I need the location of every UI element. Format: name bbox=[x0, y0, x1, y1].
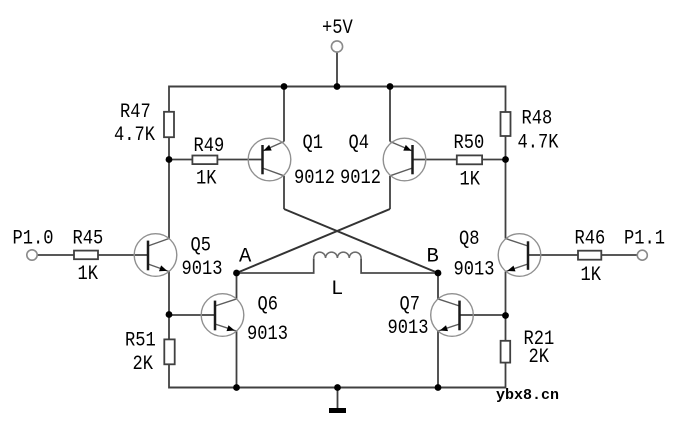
svg-text:Q8: Q8 bbox=[459, 228, 480, 251]
svg-text:R51: R51 bbox=[125, 330, 156, 353]
svg-text:R47: R47 bbox=[120, 101, 151, 124]
svg-text:P1.0: P1.0 bbox=[13, 228, 54, 251]
svg-text:Q4: Q4 bbox=[349, 132, 370, 155]
svg-text:4.7K: 4.7K bbox=[518, 132, 560, 155]
svg-text:Q6: Q6 bbox=[258, 294, 279, 317]
svg-text:Q5: Q5 bbox=[191, 235, 212, 258]
svg-text:9013: 9013 bbox=[388, 317, 429, 340]
svg-text:P1.1: P1.1 bbox=[624, 228, 665, 251]
svg-text:1K: 1K bbox=[78, 263, 99, 286]
svg-text:2K: 2K bbox=[529, 346, 550, 369]
svg-text:B: B bbox=[427, 246, 439, 269]
svg-text:Q1: Q1 bbox=[303, 132, 324, 155]
svg-text:+5V: +5V bbox=[322, 17, 353, 40]
svg-text:1K: 1K bbox=[581, 264, 602, 287]
svg-text:R45: R45 bbox=[73, 228, 104, 251]
svg-text:2K: 2K bbox=[133, 353, 154, 376]
svg-text:ybx8.cn: ybx8.cn bbox=[496, 387, 559, 404]
svg-text:9012: 9012 bbox=[340, 167, 381, 190]
svg-text:1K: 1K bbox=[196, 168, 217, 191]
svg-text:R50: R50 bbox=[454, 132, 485, 155]
svg-text:9013: 9013 bbox=[454, 259, 495, 282]
svg-text:L: L bbox=[331, 278, 343, 301]
svg-text:9013: 9013 bbox=[247, 323, 288, 346]
svg-text:9012: 9012 bbox=[294, 167, 335, 190]
svg-text:R48: R48 bbox=[522, 108, 553, 131]
svg-text:4.7K: 4.7K bbox=[114, 124, 156, 147]
svg-text:R49: R49 bbox=[194, 135, 225, 158]
svg-text:9013: 9013 bbox=[182, 258, 223, 281]
svg-text:Q7: Q7 bbox=[400, 294, 421, 317]
svg-text:1K: 1K bbox=[460, 169, 481, 192]
svg-text:R46: R46 bbox=[575, 228, 606, 251]
svg-text:A: A bbox=[239, 246, 252, 269]
